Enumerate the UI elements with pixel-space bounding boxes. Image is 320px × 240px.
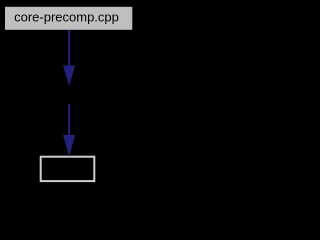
node core-precomp.cpp	[5, 7, 132, 30]
arrowhead edge 1	[63, 66, 75, 87]
svg-text:core-precomp.cpp: core-precomp.cpp	[14, 10, 119, 25]
wire edge 2 line	[68, 104, 70, 136]
arrowhead edge 2	[63, 135, 75, 156]
node bottom (unlabelled)	[41, 157, 95, 181]
wire edge 1 line	[68, 30, 70, 66]
